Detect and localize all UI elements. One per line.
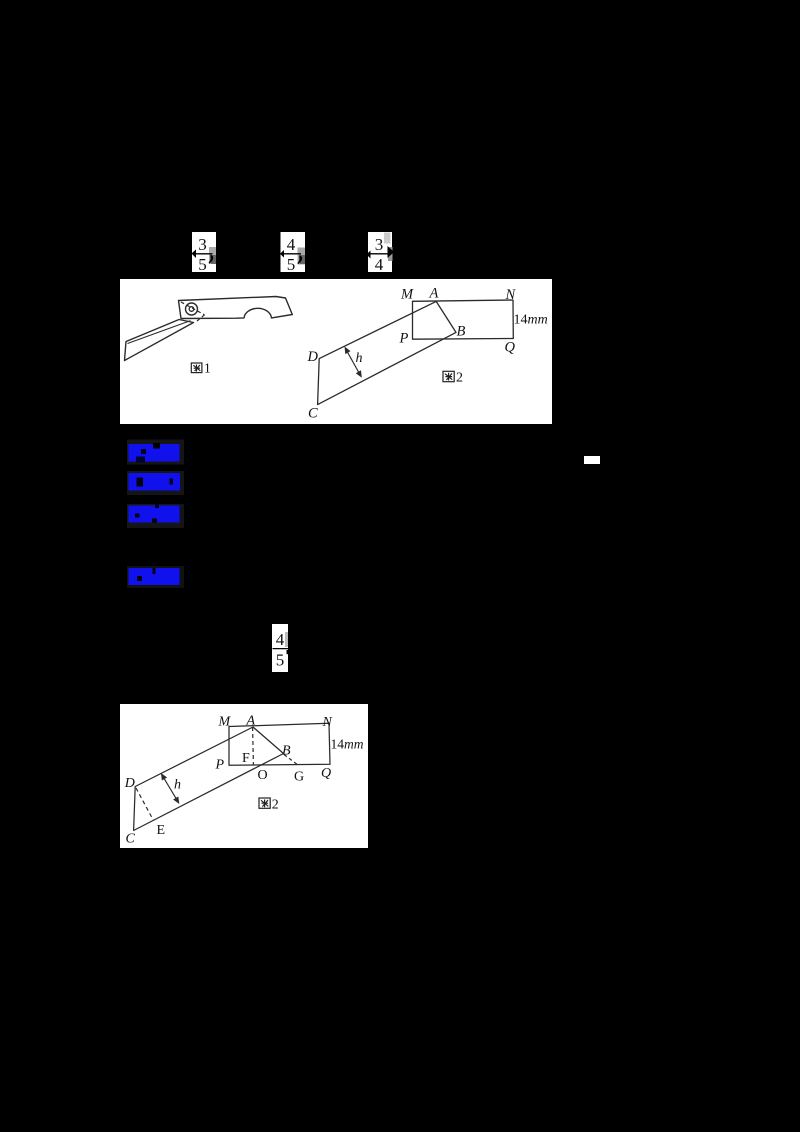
svg-text:D: D bbox=[124, 776, 135, 791]
svg-text:4: 4 bbox=[287, 235, 296, 254]
svg-text:h: h bbox=[356, 351, 363, 366]
svg-text:G: G bbox=[294, 770, 304, 785]
svg-text:14mm: 14mm bbox=[331, 737, 364, 752]
svg-text:N: N bbox=[505, 287, 517, 303]
svg-text:C: C bbox=[308, 406, 318, 422]
svg-text:14mm: 14mm bbox=[514, 313, 548, 328]
svg-text:P: P bbox=[215, 758, 225, 773]
svg-text:A: A bbox=[429, 286, 439, 302]
svg-text:Q: Q bbox=[505, 340, 516, 356]
svg-text:5: 5 bbox=[287, 255, 296, 274]
svg-text:2: 2 bbox=[272, 797, 279, 812]
svg-text:B: B bbox=[457, 324, 466, 340]
svg-text:D: D bbox=[307, 349, 319, 365]
svg-text:M: M bbox=[400, 287, 414, 303]
svg-text:1: 1 bbox=[204, 361, 211, 376]
svg-text:h: h bbox=[174, 778, 181, 793]
svg-text:Q: Q bbox=[321, 766, 331, 781]
svg-text:B: B bbox=[282, 744, 291, 759]
svg-text:A: A bbox=[246, 714, 256, 729]
svg-text:F: F bbox=[242, 751, 250, 766]
svg-text:4: 4 bbox=[375, 255, 384, 274]
svg-text:3: 3 bbox=[198, 235, 207, 254]
svg-text:2: 2 bbox=[456, 371, 463, 386]
svg-text:5: 5 bbox=[276, 651, 285, 670]
svg-text:O: O bbox=[258, 768, 268, 783]
svg-text:4: 4 bbox=[276, 630, 285, 649]
svg-text:C: C bbox=[126, 832, 136, 847]
svg-text:N: N bbox=[322, 715, 333, 730]
svg-text:E: E bbox=[157, 823, 166, 838]
svg-text:3: 3 bbox=[375, 235, 384, 254]
svg-text:M: M bbox=[218, 715, 232, 730]
svg-text:5: 5 bbox=[198, 255, 207, 274]
svg-text:P: P bbox=[399, 331, 409, 347]
